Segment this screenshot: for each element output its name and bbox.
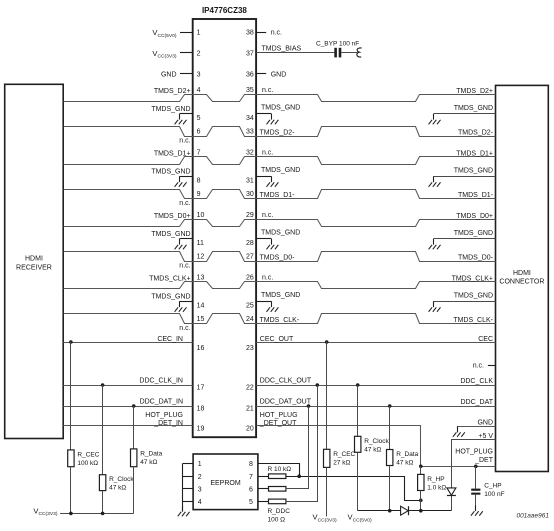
diode D1 <box>401 506 409 515</box>
wire DDC_DAT_IN receiver to pin 18 <box>63 406 193 408</box>
svg-text:HOT_PLUG: HOT_PLUG <box>145 412 183 419</box>
svg-text:1: 1 <box>197 30 201 37</box>
wire 5V bias net <box>358 510 401 512</box>
svg-text:EEPROM: EEPROM <box>210 480 241 487</box>
svg-text:TMDS_GND: TMDS_GND <box>454 292 493 299</box>
wire DDC_CLK_IN receiver to pin 17 <box>63 385 193 387</box>
resistor R_Data 47k left <box>133 406 135 449</box>
wire TMDS_D0+ pin 29 to connector <box>257 220 496 227</box>
wire TMDS_CLK+ pin 26 to connector <box>257 282 496 289</box>
svg-text:_DET: _DET <box>474 457 494 464</box>
svg-text:13: 13 <box>197 274 205 281</box>
svg-text:n.c.: n.c. <box>179 200 190 207</box>
ground EEPROM <box>182 506 184 512</box>
wire TMDS_D0- receiver to pin 12 <box>64 252 193 262</box>
wire TMDS_CLK- pin 24 to connector <box>257 314 496 324</box>
shield ground symbol <box>357 48 362 57</box>
ground C_HP <box>475 506 477 512</box>
svg-text:4: 4 <box>198 499 202 506</box>
diode D2 <box>447 488 456 495</box>
svg-text:CC(3V3): CC(3V3) <box>38 511 57 517</box>
svg-text:HOT_PLUG: HOT_PLUG <box>260 412 298 419</box>
resistor eeprom pin 6 series <box>258 488 269 490</box>
svg-text:5: 5 <box>249 499 253 506</box>
svg-text:TMDS_GND: TMDS_GND <box>151 168 190 175</box>
svg-text:TMDS_D1-: TMDS_D1- <box>458 192 494 199</box>
wire eeprom pin 6 to DDC_DAT <box>286 407 309 489</box>
wire TMDS_D2+ pin 35 to connector <box>257 95 496 102</box>
wire TMDS_D0+ through IC pin 10 to pin 29 <box>193 220 257 227</box>
node HPD junction C_HP <box>474 465 478 469</box>
svg-text:_DET_IN: _DET_IN <box>153 420 183 427</box>
svg-text:17: 17 <box>197 384 205 391</box>
svg-text:3: 3 <box>197 71 201 78</box>
svg-text:CC(5V0): CC(5V0) <box>353 517 372 523</box>
node HPD junction R_HP <box>419 465 423 469</box>
pin 1 stub VCC(5V0) <box>180 32 193 34</box>
svg-text:n.c.: n.c. <box>262 87 273 94</box>
svg-text:100 nF: 100 nF <box>484 491 504 498</box>
wire TMDS_D1+ through IC pin 7 to pin 32 <box>193 157 257 165</box>
svg-text:n.c.: n.c. <box>179 325 190 332</box>
wire eeprom pin 5 to DDC_CLK <box>286 386 318 502</box>
svg-text:DDC_CLK: DDC_CLK <box>460 378 493 385</box>
svg-text:16: 16 <box>197 345 205 352</box>
wire TMDS_D1+ pin 32 to connector <box>257 157 496 165</box>
wire TMDS_CLK- receiver to pin 15 <box>64 314 193 324</box>
ground TMDS_GND connector row D0 <box>434 238 496 240</box>
wire HOT_PLUG_DET to connector <box>421 466 496 468</box>
svg-text:37: 37 <box>246 50 254 57</box>
svg-text:TMDS_D0+: TMDS_D0+ <box>154 213 191 220</box>
svg-text:TMDS_CLK-: TMDS_CLK- <box>260 317 300 324</box>
node WP net junction on R_HP lead <box>419 499 423 503</box>
wire HOT_PLUG_DET_OUT pin 20 down to HPD node <box>257 426 421 467</box>
ground TMDS_GND connector row D2 <box>434 113 496 115</box>
svg-text:TMDS_D2-: TMDS_D2- <box>458 130 494 137</box>
resistor R_CEC 27k <box>326 342 328 449</box>
svg-text:n.c.: n.c. <box>262 212 273 219</box>
wire TMDS_D1- receiver to pin 9 <box>64 190 193 199</box>
svg-text:36: 36 <box>246 71 254 78</box>
svg-text:28: 28 <box>246 240 254 247</box>
ground TMDS_GND connector row D1 <box>434 176 496 178</box>
EEPROM block <box>193 454 258 510</box>
pin 38 stub n.c. <box>256 32 266 34</box>
svg-text:32: 32 <box>246 149 254 156</box>
wire +5V connector <box>452 440 496 488</box>
svg-text:47 kΩ: 47 kΩ <box>364 446 381 453</box>
wire VCC(3V3) rail bottom left <box>60 513 134 515</box>
node VCC(3V3) junction R_Clock <box>101 512 105 516</box>
svg-text:TMDS_D0-: TMDS_D0- <box>260 255 296 262</box>
svg-text:21: 21 <box>246 406 254 413</box>
wire TMDS_D0- through IC pin 12 to pin 27 <box>193 252 257 262</box>
svg-text:HDMI: HDMI <box>513 270 531 277</box>
svg-text:GND: GND <box>161 71 177 78</box>
ground TMDS_GND pin 11 <box>180 238 193 240</box>
svg-text:6: 6 <box>197 129 201 136</box>
svg-text:18: 18 <box>197 406 205 413</box>
svg-text:R_Data: R_Data <box>140 450 162 457</box>
wire EEPROM pin 8 jog <box>258 464 300 477</box>
wire TMDS_D1- through IC pin 9 to pin 30 <box>193 190 257 199</box>
resistor R_DDC 100 <box>258 501 269 503</box>
svg-text:15: 15 <box>197 316 205 323</box>
svg-text:HOT_PLUG: HOT_PLUG <box>455 448 493 455</box>
resistor R_CEC 100k <box>70 342 72 450</box>
svg-text:27 kΩ: 27 kΩ <box>333 459 350 466</box>
svg-text:7: 7 <box>249 474 253 481</box>
svg-text:CONNECTOR: CONNECTOR <box>499 279 544 286</box>
svg-text:TMDS_CLK+: TMDS_CLK+ <box>149 275 190 282</box>
svg-text:TMDS_D1+: TMDS_D1+ <box>456 150 493 157</box>
wire EEPROM left pins bus <box>183 463 194 465</box>
svg-text:R_CEC: R_CEC <box>77 451 99 458</box>
svg-text:TMDS_GND: TMDS_GND <box>261 230 300 237</box>
wire GND connector <box>458 427 496 433</box>
svg-text:R_DDC: R_DDC <box>268 508 291 515</box>
capacitor C_HP 100 nF <box>475 466 477 488</box>
svg-text:1.0 kΩ: 1.0 kΩ <box>427 485 446 492</box>
svg-text:10: 10 <box>197 212 205 219</box>
wire TMDS_D2+ through IC pin 4 to pin 35 <box>193 95 257 102</box>
svg-text:n.c.: n.c. <box>262 275 273 282</box>
svg-text:TMDS_D2+: TMDS_D2+ <box>154 88 191 95</box>
svg-text:4: 4 <box>197 87 201 94</box>
svg-text:TMDS_GND: TMDS_GND <box>261 292 300 299</box>
svg-text:14: 14 <box>197 303 205 310</box>
svg-text:IP4776CZ38: IP4776CZ38 <box>202 6 247 15</box>
wire TMDS_D2+ receiver to pin 4 <box>64 95 193 102</box>
node pin 8 junction <box>297 474 301 478</box>
wire HOT_PLUG_DET_IN receiver to pin 19 <box>63 425 193 427</box>
svg-text:20: 20 <box>246 425 254 432</box>
pin n.c. stub connector <box>488 365 496 367</box>
svg-text:TMDS_D1+: TMDS_D1+ <box>154 150 191 157</box>
svg-text:n.c.: n.c. <box>271 30 282 37</box>
ground connector GND pin <box>457 426 459 432</box>
svg-text:TMDS_GND: TMDS_GND <box>454 167 493 174</box>
svg-text:38: 38 <box>246 30 254 37</box>
wire TMDS_D0- pin 27 to connector <box>257 252 496 262</box>
svg-text:n.c.: n.c. <box>262 150 273 157</box>
svg-text:R 10 kΩ: R 10 kΩ <box>268 466 292 473</box>
svg-text:3: 3 <box>198 486 202 493</box>
svg-text:TMDS_GND: TMDS_GND <box>151 106 190 113</box>
wire CEC_IN receiver to pin 16 <box>63 342 193 344</box>
pin 2 stub VCC(3V3) <box>180 52 193 54</box>
svg-text:47 kΩ: 47 kΩ <box>109 485 126 492</box>
HDMI connector block <box>496 85 549 471</box>
svg-text:DDC_DAT: DDC_DAT <box>460 399 493 406</box>
svg-text:11: 11 <box>197 240 204 247</box>
svg-text:CC(5V0): CC(5V0) <box>157 33 176 39</box>
svg-text:TMDS_GND: TMDS_GND <box>454 105 493 112</box>
svg-text:TMDS_D2-: TMDS_D2- <box>260 130 296 137</box>
resistor R_Clock 47k left <box>102 385 104 475</box>
svg-text:GND: GND <box>271 71 287 78</box>
ground TMDS_GND pin 8 <box>180 176 193 178</box>
wire CEC_OUT pin 23 to connector <box>256 342 495 344</box>
svg-text:19: 19 <box>197 425 205 432</box>
wire TMDS_D2- receiver to pin 6 <box>64 127 193 137</box>
ground TMDS_GND pin 25 <box>256 301 271 303</box>
capacitor C_BYP 100 nF <box>334 48 337 58</box>
svg-text:C_HP: C_HP <box>484 482 501 489</box>
svg-text:R_Clock: R_Clock <box>109 476 134 483</box>
svg-text:1: 1 <box>198 461 202 468</box>
wire TMDS_D1- pin 30 to connector <box>257 190 496 199</box>
node DDC_DAT_OUT junction eeprom pin 6 <box>307 404 311 408</box>
svg-text:100 kΩ: 100 kΩ <box>77 460 98 467</box>
node VCC(3V3) junction R_CEC <box>69 512 73 516</box>
svg-text:24: 24 <box>246 316 254 323</box>
wire TMDS_D2- pin 33 to connector <box>257 127 496 137</box>
svg-text:8: 8 <box>197 178 201 185</box>
svg-text:22: 22 <box>246 384 254 391</box>
svg-text:100 Ω: 100 Ω <box>268 516 286 523</box>
svg-text:12: 12 <box>197 254 205 261</box>
svg-text:CC(3V3): CC(3V3) <box>318 517 337 523</box>
svg-text:CEC_IN: CEC_IN <box>157 336 183 343</box>
svg-text:29: 29 <box>246 212 254 219</box>
pin 37 wire TMDS_BIAS <box>256 52 334 54</box>
svg-text:2: 2 <box>198 474 202 481</box>
HDMI receiver block <box>5 84 64 438</box>
node DDC_DAT_OUT junction R_Data 47k <box>388 404 392 408</box>
svg-text:_DET_OUT: _DET_OUT <box>259 420 297 427</box>
node DDC_CLK_OUT junction R_Clock 47k <box>356 383 360 387</box>
svg-text:35: 35 <box>246 87 254 94</box>
svg-text:TMDS_D2+: TMDS_D2+ <box>456 88 493 95</box>
ground TMDS_GND pin 31 <box>256 176 271 178</box>
svg-text:DDC_DAT_OUT: DDC_DAT_OUT <box>260 399 312 406</box>
svg-text:TMDS_BIAS: TMDS_BIAS <box>262 45 302 52</box>
svg-text:CEC: CEC <box>478 336 493 343</box>
svg-text:9: 9 <box>197 191 201 198</box>
wire TMDS_D1+ receiver to pin 7 <box>64 157 193 165</box>
svg-text:47 kΩ: 47 kΩ <box>396 460 413 467</box>
resistor R_Data 47k right <box>389 406 391 450</box>
svg-text:R_CEC: R_CEC <box>333 451 355 458</box>
svg-text:33: 33 <box>246 129 254 136</box>
wire TMDS_CLK+ receiver to pin 13 <box>64 282 193 289</box>
svg-text:DDC_DAT_IN: DDC_DAT_IN <box>140 399 183 406</box>
wire TMDS_D2- through IC pin 6 to pin 33 <box>193 127 257 137</box>
svg-text:HDMI: HDMI <box>25 256 43 263</box>
svg-text:TMDS_GND: TMDS_GND <box>151 293 190 300</box>
svg-text:TMDS_GND: TMDS_GND <box>261 167 300 174</box>
svg-text:27: 27 <box>246 254 254 261</box>
svg-text:CEC_OUT: CEC_OUT <box>260 336 294 343</box>
node 5V net junction R_HP <box>419 509 423 513</box>
svg-text:7: 7 <box>197 149 201 156</box>
svg-text:RECEIVER: RECEIVER <box>16 265 52 272</box>
resistor R 10k <box>258 476 269 478</box>
svg-text:8: 8 <box>249 461 253 468</box>
wire cap to shield ground <box>341 52 357 54</box>
svg-text:2: 2 <box>197 50 201 57</box>
svg-text:TMDS_GND: TMDS_GND <box>454 230 493 237</box>
node DDC_CLK_OUT junction eeprom pin 5 <box>316 383 320 387</box>
svg-text:34: 34 <box>246 115 254 122</box>
ground TMDS_GND pin 28 <box>256 238 271 240</box>
svg-text:GND: GND <box>477 419 493 426</box>
svg-text:001aae961: 001aae961 <box>516 512 549 519</box>
ground TMDS_GND pin 14 <box>180 301 193 303</box>
svg-text:TMDS_D0+: TMDS_D0+ <box>456 213 493 220</box>
svg-text:TMDS_CLK-: TMDS_CLK- <box>453 317 493 324</box>
svg-text:47 kΩ: 47 kΩ <box>140 459 157 466</box>
svg-text:TMDS_GND: TMDS_GND <box>261 105 300 112</box>
svg-text:n.c.: n.c. <box>179 137 190 144</box>
pin 3 stub GND <box>180 73 193 75</box>
svg-text:31: 31 <box>246 178 254 185</box>
svg-text:TMDS_CLK+: TMDS_CLK+ <box>452 275 493 282</box>
svg-text:6: 6 <box>249 486 253 493</box>
node 5V net junction R_Data <box>388 509 392 513</box>
ground TMDS_GND connector row CLK <box>434 301 496 303</box>
wire DDC_CLK_OUT pin 22 to connector <box>256 385 495 387</box>
svg-text:CC(3V3): CC(3V3) <box>157 54 176 60</box>
wire TMDS_D0+ receiver to pin 10 <box>64 220 193 227</box>
svg-text:23: 23 <box>246 345 254 352</box>
resistor R_HP 1.0k <box>420 466 422 474</box>
svg-text:30: 30 <box>246 191 254 198</box>
svg-text:R_Data: R_Data <box>396 451 418 458</box>
wire DDC_DAT_OUT pin 21 to connector <box>256 406 495 408</box>
svg-text:26: 26 <box>246 274 254 281</box>
svg-text:R_HP: R_HP <box>427 476 444 483</box>
ground TMDS_GND pin 34 <box>256 113 271 115</box>
node CEC_IN junction to R_CEC <box>69 340 73 344</box>
svg-text:TMDS_D0-: TMDS_D0- <box>458 255 494 262</box>
ground TMDS_GND pin 5 <box>180 113 193 115</box>
svg-text:n.c.: n.c. <box>179 262 190 269</box>
node DDC_DAT_IN junction to R_Data <box>132 404 136 408</box>
svg-text:C_BYP 100 nF: C_BYP 100 nF <box>316 41 359 48</box>
node DDC_CLK_IN junction to R_Clock <box>101 383 105 387</box>
wire TMDS_CLK+ through IC pin 13 to pin 26 <box>193 282 257 289</box>
svg-text:TMDS_GND: TMDS_GND <box>151 231 190 238</box>
pin 36 stub GND <box>256 73 266 75</box>
svg-text:n.c.: n.c. <box>473 362 484 369</box>
svg-text:+5 V: +5 V <box>478 433 493 440</box>
wire WP net to R_HP node <box>286 477 421 501</box>
IC U1 IP4776CZ38 body <box>193 19 256 437</box>
wire TMDS_CLK- through IC pin 15 to pin 24 <box>193 314 257 324</box>
svg-text:25: 25 <box>246 303 254 310</box>
node CEC_OUT junction to R_CEC 27k <box>325 340 329 344</box>
svg-text:DDC_CLK_IN: DDC_CLK_IN <box>139 378 183 385</box>
svg-text:DDC_CLK_OUT: DDC_CLK_OUT <box>260 378 312 385</box>
resistor R_Clock 47k right <box>357 385 359 436</box>
svg-text:5: 5 <box>197 115 201 122</box>
svg-text:R_Clock: R_Clock <box>364 438 389 445</box>
